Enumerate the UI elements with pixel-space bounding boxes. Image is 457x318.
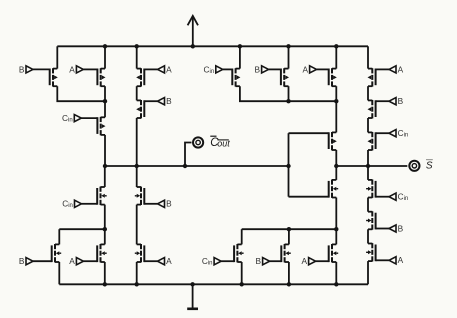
input port B for pmos M20 (gate B, A.B.C branch) xyxy=(389,96,404,106)
junction /Cout output tap xyxy=(183,164,187,168)
svg-text:A: A xyxy=(302,64,308,74)
wire M16 source to GND rail xyxy=(241,262,243,284)
pmos M11 (gate Cin, sum pull-up) xyxy=(223,68,241,86)
wire node N4 to M17 drain xyxy=(288,229,290,244)
svg-text:A: A xyxy=(69,64,75,74)
pmos M1 (gate B, Cout pull-up) xyxy=(33,68,58,86)
input port B for pmos M5 (gate B, A.B branch) xyxy=(158,96,173,106)
pmos M12 (gate B, sum pull-up) xyxy=(269,68,289,86)
wire node N4 horizontal xyxy=(242,228,337,230)
pmos M20 (gate B, A.B.C branch) xyxy=(368,100,390,118)
input port Cin for nmos M6 (gate Cin, Cout pull-down) xyxy=(62,199,81,210)
power rail VDD (top) xyxy=(57,45,368,47)
net /Cout bus xyxy=(105,165,289,167)
wire M15 source to node N4 xyxy=(335,198,337,230)
input port A for pmos M4 (gate A, A.B branch) xyxy=(158,64,173,74)
input port Cin for pmos M3 (gate Cin, Cout pull-up) xyxy=(62,113,81,124)
wire M21 drain to node S xyxy=(367,150,369,166)
wire M24 source to GND rail xyxy=(367,261,369,284)
wire M17 source to GND rail xyxy=(288,262,290,284)
wire VDD to M12 source xyxy=(288,46,290,68)
net S bus xyxy=(336,165,407,167)
label S xyxy=(426,160,433,172)
input port B for nmos M17 (gate B, sum pull-down) xyxy=(255,256,269,266)
input port A for pmos M13 (gate A, sum pull-up) xyxy=(302,64,316,74)
junction VDD rail x=192.8 xyxy=(191,44,195,48)
VDD supply arrow xyxy=(188,16,198,46)
ground symbol xyxy=(187,284,198,309)
wire M22 source to M23 drain xyxy=(367,198,369,212)
input port B for nmos M7 (gate B, Cout pull-down) xyxy=(19,256,33,266)
wire node N1 to M3 source xyxy=(104,101,106,117)
wire VDD to M4 source (A.B column) xyxy=(136,46,138,68)
wire node S to M15 drain xyxy=(335,166,337,180)
wire /Cout to M14/M15 gates xyxy=(288,133,290,197)
wire M7 source to GND rail xyxy=(58,262,60,284)
junction GND rail x=192.6 xyxy=(190,282,194,286)
wire VDD to M11 source xyxy=(239,46,241,68)
wire VDD to M13 source xyxy=(335,46,337,68)
svg-text:B: B xyxy=(166,199,172,209)
wire /Cout to output port xyxy=(185,143,192,167)
pmos M13 (gate A, sum pull-up) xyxy=(317,68,337,86)
svg-text:B: B xyxy=(398,223,404,233)
junction /Cout at M3 xyxy=(103,164,107,168)
wire M6 source to node N3 xyxy=(104,205,106,230)
wire M1 drain to node N1 xyxy=(57,86,105,101)
output port /Cout xyxy=(193,137,203,147)
junction VDD rail x=288.5 xyxy=(286,44,290,48)
nmos M17 (gate B, sum pull-down) xyxy=(270,244,291,262)
pmos M14 (gate /Cout, sum stage) xyxy=(289,132,337,150)
junction node N1 xyxy=(103,99,107,103)
wire M14 drain to node S xyxy=(335,150,337,166)
junction /Cout at A.B column xyxy=(135,164,139,168)
pmos M4 (gate A, A.B branch) xyxy=(136,68,157,86)
wire node N4 to M16 drain xyxy=(241,229,243,244)
junction VDD rail x=336.3 xyxy=(334,44,338,48)
nmos M22 (gate Cin, A.B.C branch) xyxy=(366,180,389,198)
svg-text:A: A xyxy=(166,256,172,266)
nmos M16 (gate Cin, sum pull-down) xyxy=(221,244,244,262)
wire M3 drain to Cout node xyxy=(104,135,106,166)
input port A for nmos M8 (gate A, Cout pull-down) xyxy=(69,256,83,266)
svg-text:B: B xyxy=(166,96,172,106)
wire node N2 to M14 source xyxy=(335,101,337,132)
pmos M19 (gate A, A.B.C branch) xyxy=(368,68,390,86)
wire VDD to M19 source (A.B.C column) xyxy=(367,46,369,68)
junction VDD rail x=105 xyxy=(103,44,107,48)
junction GND rail x=336.3 xyxy=(334,282,338,286)
svg-text:B: B xyxy=(254,64,260,74)
label /Cout xyxy=(210,136,230,149)
junction VDD rail x=239.9 xyxy=(238,44,242,48)
junction GND rail x=288.9 xyxy=(287,282,291,286)
wire M5 drain to Cout node xyxy=(136,118,138,166)
wire VDD to M1 source xyxy=(56,46,58,68)
wire node N3 to M8 drain xyxy=(104,229,106,244)
input port A for pmos M19 (gate A, A.B.C branch) xyxy=(389,64,404,74)
wire node N2 horizontal xyxy=(240,86,336,101)
wire M9 source to M10 drain xyxy=(136,205,138,245)
junction VDD rail x=136.7 xyxy=(135,44,139,48)
wire node S to M22 drain xyxy=(367,166,369,180)
junction S at right column xyxy=(366,164,370,168)
input port Cin for nmos M16 (gate Cin, sum pull-down) xyxy=(202,256,221,267)
svg-text:B: B xyxy=(19,256,25,266)
svg-text:A: A xyxy=(69,256,75,266)
junction /Cout gate tap xyxy=(286,164,290,168)
nmos M24 (gate A, A.B.C branch) xyxy=(366,243,389,261)
wire Cout node to M6 drain xyxy=(104,166,106,187)
junction GND rail x=104.8 xyxy=(103,282,107,286)
wire M10 source to GND rail xyxy=(136,262,138,284)
nmos M7 (gate B, Cout pull-down) xyxy=(33,244,61,262)
wire M2 drain to node N1 xyxy=(104,86,106,101)
wire M23 source to M24 drain xyxy=(367,229,369,243)
wire node N3 to M7 drain xyxy=(59,228,105,230)
input port B for pmos M1 (gate B, Cout pull-up) xyxy=(19,64,33,74)
input port A for nmos M24 (gate A, A.B.C branch) xyxy=(389,255,404,265)
junction node N2 at M12 xyxy=(286,99,290,103)
svg-text:S: S xyxy=(426,161,433,172)
input port A for nmos M18 (gate A, sum pull-down) xyxy=(301,256,315,266)
junction node N4 at M18 xyxy=(334,227,338,231)
wire Cout node to M9 drain xyxy=(136,166,138,187)
junction node N4 at M17 xyxy=(287,227,291,231)
nmos M23 (gate B, A.B.C branch) xyxy=(366,211,389,229)
input port A for nmos M10 (gate A, A.B branch) xyxy=(158,256,173,266)
power rail GND (bottom) xyxy=(59,283,368,285)
svg-text:A: A xyxy=(301,256,307,266)
wire M13 drain to node N2 xyxy=(335,86,337,101)
output port S xyxy=(409,161,419,171)
nmos M18 (gate A, sum pull-down) xyxy=(316,244,339,262)
wire M4 drain to M5 source xyxy=(136,86,138,100)
pmos M5 (gate B, A.B branch) xyxy=(136,100,157,118)
svg-text:A: A xyxy=(166,64,172,74)
wire M19 drain to M20 source xyxy=(367,86,369,100)
junction S at M14 xyxy=(334,164,338,168)
nmos M8 (gate A, Cout pull-down) xyxy=(83,244,106,262)
svg-text:A: A xyxy=(398,64,404,74)
wire VDD to M2 source xyxy=(104,46,106,68)
input port A for pmos M2 (gate A, Cout pull-up) xyxy=(69,64,83,74)
wire node N3 left leg xyxy=(58,229,60,244)
wire M8 source to GND rail xyxy=(104,262,106,284)
nmos M6 (gate Cin, Cout pull-down) xyxy=(82,187,107,205)
junction GND rail x=136.7 xyxy=(135,282,139,286)
input port B for pmos M12 (gate B, sum pull-up) xyxy=(254,64,268,74)
svg-text:B: B xyxy=(398,96,404,106)
junction node N3 xyxy=(103,227,107,231)
input port B for nmos M9 (gate B, A.B branch) xyxy=(158,199,173,209)
wire M12 drain to node N2 xyxy=(288,86,290,101)
pmos M2 (gate A, Cout pull-up) xyxy=(83,68,105,86)
junction node N2 at M13 xyxy=(334,99,338,103)
wire node N4 to M18 drain xyxy=(335,229,337,244)
nmos M9 (gate B, A.B branch) xyxy=(135,187,158,205)
junction GND rail x=241.7 xyxy=(240,282,244,286)
svg-text:B: B xyxy=(255,256,261,266)
wire M18 source to GND rail xyxy=(335,262,337,284)
nmos M15 (gate /Cout, sum stage) xyxy=(289,180,339,198)
wire M20 drain to M21 source xyxy=(367,118,369,132)
svg-text:A: A xyxy=(398,255,404,265)
input port B for nmos M23 (gate B, A.B.C branch) xyxy=(389,223,404,233)
svg-text:B: B xyxy=(19,64,25,74)
input port Cin for pmos M11 (gate Cin, sum pull-up) xyxy=(204,64,223,75)
input port Cin for nmos M22 (gate Cin, A.B.C branch) xyxy=(389,192,408,203)
nmos M10 (gate A, A.B branch) xyxy=(135,244,158,262)
pmos M21 (gate Cin, A.B.C branch) xyxy=(368,132,390,150)
pmos M3 (gate Cin, Cout pull-up) xyxy=(81,117,105,135)
input port Cin for pmos M21 (gate Cin, A.B.C branch) xyxy=(389,128,408,139)
